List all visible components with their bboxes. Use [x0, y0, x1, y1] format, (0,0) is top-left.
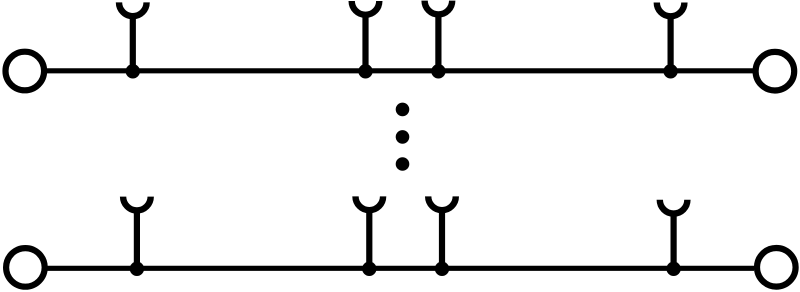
terminal circle bottom-right [757, 248, 796, 287]
socket contact tap T2 (top bus) [352, 1, 380, 71]
socket contact tap B1 (bottom bus) [123, 197, 151, 269]
junction dot B4 (bottom bus) [666, 262, 680, 276]
junction dot B3 (bottom bus) [435, 262, 449, 276]
wire top bus [46, 68, 754, 73]
wire bottom bus [47, 266, 754, 271]
socket contact tap B3 (bottom bus) [428, 196, 456, 268]
socket contact tap T3 (top bus) [425, 1, 453, 71]
junction dot B1 (bottom bus) [130, 262, 144, 276]
junction dot T2 (top bus) [358, 64, 372, 78]
socket contact tap B4 (bottom bus) [660, 200, 688, 268]
terminal circle top-left [6, 52, 45, 91]
junction dot B2 (bottom bus) [362, 262, 376, 276]
socket contact tap T1 (top bus) [119, 2, 147, 70]
ellipsis dot 1 (repetition mark) [396, 103, 410, 117]
socket contact tap T4 (top bus) [657, 3, 685, 71]
terminal circle bottom-left [6, 248, 45, 287]
socket contact tap B2 (bottom bus) [356, 196, 384, 268]
terminal circle top-right [756, 52, 795, 91]
ellipsis dot 3 (repetition mark) [396, 157, 410, 171]
ellipsis dot 2 (repetition mark) [396, 130, 410, 144]
junction dot T3 (top bus) [431, 64, 445, 78]
junction dot T4 (top bus) [663, 64, 677, 78]
junction dot T1 (top bus) [126, 64, 140, 78]
